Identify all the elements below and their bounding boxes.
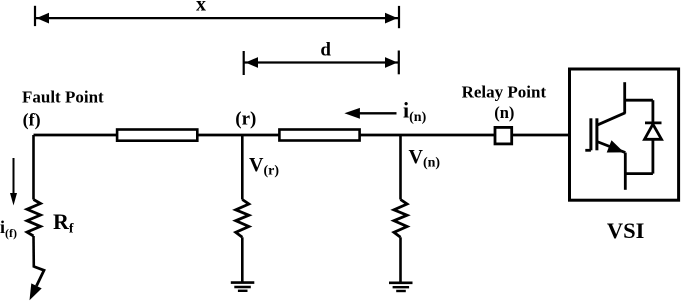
dimension d left tick — [243, 51, 245, 75]
diode D1 cathode bar — [645, 122, 662, 125]
svg-text:i(f): i(f) — [0, 217, 17, 240]
svg-text:(n): (n) — [494, 103, 514, 122]
wire r branch vertical — [241, 135, 244, 200]
dimension x right tick — [398, 6, 400, 28]
svg-text:i(n): i(n) — [403, 98, 427, 125]
svg-text:d: d — [320, 40, 331, 61]
svg-text:V(r): V(r) — [249, 154, 279, 179]
IGBT Q1 body bar — [595, 118, 598, 150]
dimension d right tick — [398, 51, 400, 75]
fault lightning arrow to ground — [30, 267, 45, 301]
svg-text:(f): (f) — [23, 110, 41, 131]
resistor shunt r zigzag — [236, 200, 249, 238]
IGBT Q1 gate lead — [585, 149, 591, 152]
ground r — [231, 283, 255, 291]
resistor Rf zigzag — [27, 200, 41, 237]
dimension d line — [245, 61, 399, 63]
VSI box — [570, 69, 679, 200]
svg-text:(r): (r) — [235, 109, 256, 130]
dimension x right arrowhead — [385, 13, 398, 24]
IGBT Q1 collector stub — [623, 82, 626, 113]
svg-text:V(n): V(n) — [409, 146, 441, 171]
wire below Rf — [32, 236, 35, 268]
ground n — [389, 283, 413, 291]
diode D1 bottom lead — [652, 139, 655, 173]
svg-text:Fault Point: Fault Point — [22, 88, 104, 107]
svg-text:Rf: Rf — [53, 209, 74, 237]
wire n branch to ground — [399, 237, 402, 282]
wire bottom rail to diode — [625, 172, 653, 175]
wire n branch vertical — [399, 135, 402, 200]
dimension d right arrowhead — [385, 57, 398, 68]
dimension x left tick — [34, 6, 36, 26]
wire top rail to diode — [625, 99, 653, 102]
wire r branch to ground — [241, 237, 244, 282]
relay point square — [495, 127, 512, 143]
dimension x left arrowhead — [37, 13, 50, 24]
resistor line-section box r-n — [279, 130, 359, 141]
dimension d left arrowhead — [246, 57, 259, 68]
IGBT Q1 emitter diagonal — [597, 142, 625, 153]
diode D1 top lead — [652, 100, 655, 122]
resistor line-section box f-r — [117, 130, 197, 141]
svg-text:VSI: VSI — [607, 218, 645, 243]
svg-text:Relay Point: Relay Point — [462, 82, 547, 101]
IGBT Q1 collector diagonal — [597, 113, 625, 125]
svg-text:x: x — [196, 0, 206, 16]
wire main horizontal f to VSI — [34, 134, 570, 137]
current arrow i(n) — [344, 108, 396, 119]
resistor shunt n zigzag — [394, 200, 407, 238]
wire fault vertical f down — [32, 135, 35, 200]
current arrow i(f) — [10, 158, 17, 206]
IGBT Q1 emitter stub — [624, 153, 627, 190]
diode D1 triangle — [645, 124, 662, 139]
IGBT Q1 gate bar — [589, 118, 592, 150]
IGBT Q1 emitter arrowhead — [607, 140, 624, 152]
dimension x line — [36, 17, 398, 19]
